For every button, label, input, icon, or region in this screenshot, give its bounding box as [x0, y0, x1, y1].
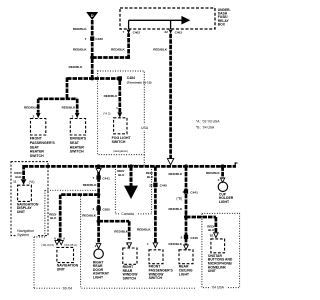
svg-text:WINDOW: WINDOW [123, 273, 139, 277]
fog light switch box [114, 118, 127, 134]
label RED/BLK below C336 [73, 48, 88, 52]
note ('03-'05 A) [64, 243, 77, 247]
svg-text:'04 USA: '04 USA [212, 285, 225, 289]
label C484 terminals 11-13 [127, 76, 152, 84]
svg-text:BLK: BLK [147, 175, 154, 179]
label front passenger's window switch [149, 265, 174, 281]
svg-text:PASSENGER'S: PASSENGER'S [30, 141, 56, 145]
svg-text:(*A 2): (*A 2) [103, 112, 110, 116]
connector C346 pin 6 [181, 235, 199, 240]
svg-text:UNIT: UNIT [17, 210, 26, 214]
wire main vertical from D (RED/BLK) [87, 20, 98, 79]
node bus j4 [221, 164, 225, 168]
label rear ceiling light [179, 265, 193, 277]
svg-text:1: 1 [116, 106, 118, 110]
label fog light switch [112, 136, 132, 144]
svg-text:B1: B1 [210, 233, 214, 237]
label onstar unit [208, 254, 233, 273]
label RED/BLK x155 [146, 171, 154, 179]
wire branch to right rear window switch [99, 221, 130, 240]
svg-text:('03-'05 A): ('03-'05 A) [64, 243, 77, 247]
terminal 2 front passenger seat heater [33, 113, 41, 118]
terminal 6 nav unit [54, 237, 59, 245]
svg-text:33: 33 [149, 183, 153, 187]
svg-text:RED/BLK: RED/BLK [24, 106, 39, 110]
svg-text:D: D [91, 13, 94, 18]
svg-text:C346: C346 [190, 236, 198, 240]
svg-text:RED/BLK: RED/BLK [104, 94, 119, 98]
wire branch to fuse box pin 7 [92, 33, 128, 59]
label navigation display unit [17, 202, 39, 213]
svg-text:CUP: CUP [219, 192, 227, 196]
svg-text:BOX: BOX [218, 23, 226, 27]
dotted border segment a [43, 190, 47, 235]
svg-text:BUTTONS AND: BUTTONS AND [208, 258, 233, 262]
svg-text:USA: USA [141, 126, 149, 130]
svg-text:ASHTRAY: ASHTRAY [93, 272, 110, 276]
svg-text:DOOR: DOOR [93, 268, 104, 272]
node branch at y78.5 [90, 77, 94, 81]
svg-text:(navigation): (navigation) [113, 149, 128, 153]
wire bus left arm down [18, 165, 29, 179]
svg-text:4: 4 [92, 207, 94, 211]
label RED/BLK below C585 [82, 213, 97, 217]
svg-text:7: 7 [123, 30, 125, 34]
svg-text:RED/BLK: RED/BLK [168, 172, 183, 176]
svg-text:RED/BLK: RED/BLK [169, 242, 183, 246]
note (*B) [176, 197, 182, 201]
under-dash fuse/relay box [120, 8, 215, 29]
svg-text:(*B): (*B) [176, 197, 182, 201]
svg-text:RED/BLK: RED/BLK [62, 106, 77, 110]
label RED/BLK above fp window switch [137, 228, 152, 232]
terminal 1 right rear window switch [126, 241, 132, 247]
svg-text:SWITCH: SWITCH [149, 276, 163, 280]
svg-text:2: 2 [33, 114, 35, 118]
label RED/BLK cup holder [206, 171, 221, 175]
svg-text:7: 7 [92, 176, 94, 180]
wire horizontal branch y78.5 [67, 73, 120, 84]
svg-text:22: 22 [164, 30, 168, 34]
svg-text:REAR: REAR [93, 264, 103, 268]
navigation display unit box [18, 185, 32, 201]
svg-text:LIGHT: LIGHT [93, 275, 104, 279]
svg-text:2: 2 [72, 114, 74, 118]
rear ceiling light box [179, 250, 193, 264]
svg-text:C445: C445 [160, 184, 168, 188]
svg-text:C336: C336 [95, 37, 103, 41]
terminal 1 front passenger window switch [147, 242, 158, 248]
wire to front passenger's seat heater switch [33, 99, 44, 113]
svg-text:BLK: BLK [118, 173, 125, 177]
wire branch to onstar unit [186, 217, 216, 232]
dotted border bottom '00-'04 [34, 285, 195, 291]
svg-text:C441: C441 [102, 176, 110, 180]
svg-text:FRONT: FRONT [30, 137, 43, 141]
terminal female arrow below bus j1 [96, 169, 101, 174]
terminal stub split nav unit [57, 236, 60, 242]
svg-text:RED/BLK: RED/BLK [73, 48, 88, 52]
navigation system dashed region [11, 162, 48, 237]
svg-text:C403: C403 [133, 30, 141, 34]
wire big arrow shaft [125, 166, 137, 186]
node bus j3 [184, 164, 188, 168]
svg-text:11: 11 [13, 180, 17, 184]
label RED/BLK nav unit wire [49, 213, 57, 221]
terminal female arrow onto bus [167, 159, 173, 165]
wire x98.6 bus to ashtray light [93, 166, 104, 243]
terminal B1 onstar [210, 233, 219, 238]
label RED/BLK x186 mid [168, 207, 183, 211]
svg-text:RED/BLK: RED/BLK [153, 48, 168, 52]
arrow right inside fuse box [181, 16, 190, 25]
connector C445 pin 33 [149, 183, 167, 188]
svg-text:MICROPHONE/: MICROPHONE/ [208, 262, 232, 266]
terminal 2 driver's seat heater [72, 113, 80, 118]
svg-text:HEATER: HEATER [70, 145, 85, 149]
svg-text:(Terminals 11-13): (Terminals 11-13) [127, 80, 152, 84]
svg-text:SWITCH: SWITCH [30, 154, 44, 158]
label RED/BLK x186 upper [168, 172, 183, 176]
svg-text:HOMELINK: HOMELINK [208, 265, 227, 269]
wire x186 bus to rear ceiling light [181, 166, 192, 244]
svg-text:FRONT: FRONT [149, 265, 162, 269]
wire bus to cup holder light [217, 166, 228, 178]
dotted region USA (fog light) [98, 71, 150, 155]
label right rear door ashtray light [93, 260, 110, 279]
svg-text:'00-'04: '00-'04 [62, 286, 72, 290]
label RED/BLK driver seat [62, 106, 77, 110]
wire to driver's seat heater switch [72, 99, 83, 113]
svg-text:LIGHT: LIGHT [179, 272, 190, 276]
svg-text:DRIVER'S: DRIVER'S [70, 137, 87, 141]
terminal A nav unit [59, 237, 66, 245]
svg-text:REAR: REAR [179, 265, 189, 269]
connector C403 pin 7 [123, 30, 141, 35]
label navigation unit [57, 264, 79, 272]
note (*A) nav display [29, 180, 35, 184]
svg-text:7: 7 [85, 37, 87, 41]
driver's seat heater switch box [70, 119, 85, 136]
label cup holder light [219, 192, 234, 204]
label RED/BLK rr window [114, 229, 129, 233]
svg-text:FOG LIGHT: FOG LIGHT [112, 136, 132, 140]
dotted border segment c [79, 196, 83, 288]
navigation unit box [57, 247, 74, 262]
svg-text:FUSE/: FUSE/ [218, 15, 228, 19]
svg-text:REAR: REAR [123, 269, 133, 273]
svg-text:('00-'03 6): ('00-'03 6) [41, 243, 54, 247]
node junction window-switch branch [97, 219, 101, 223]
svg-text:System: System [17, 233, 29, 237]
svg-text:RED/BLK: RED/BLK [111, 48, 126, 52]
svg-text:BLK: BLK [50, 216, 57, 220]
svg-text:RED/BLK: RED/BLK [83, 183, 98, 187]
label UNDER-DASH FUSE/RELAY BOX [218, 8, 231, 27]
node junction nav-unit branch [97, 193, 100, 196]
svg-text:SWITCH: SWITCH [112, 140, 126, 144]
svg-text:ONSTAR: ONSTAR [208, 254, 223, 258]
svg-text:C441: C441 [190, 190, 198, 194]
svg-text:(*A): (*A) [29, 180, 35, 184]
svg-text:C585: C585 [102, 207, 110, 211]
wire main bus horizontal [24, 162, 238, 166]
connector C484 junction [118, 76, 122, 80]
dotted border segment d [32, 237, 36, 288]
svg-text:WINDOW: WINDOW [149, 272, 165, 276]
connector C403 pin 22 [164, 30, 182, 35]
svg-text:DASH: DASH [218, 12, 228, 16]
front passenger's seat heater switch box [31, 119, 46, 136]
wire inside fuse box [129, 20, 182, 29]
node junction at y57.5 [90, 56, 94, 60]
svg-text:RED/BLK: RED/BLK [69, 65, 84, 69]
wire riser to seat heater bus [62, 78, 73, 99]
dotted border segment b [45, 188, 97, 192]
svg-text:RIGHT: RIGHT [123, 265, 134, 269]
svg-text:NAVIGATION: NAVIGATION [57, 264, 79, 268]
label RED/BLK fog [104, 94, 119, 98]
svg-text:CEILING: CEILING [179, 268, 193, 272]
svg-text:HOLDER: HOLDER [219, 196, 234, 200]
svg-text:RELAY: RELAY [218, 19, 230, 23]
label RED/BLK below C441 [83, 183, 98, 187]
label driver's seat heater switch [70, 137, 87, 154]
big continuation arrow (canada) [124, 186, 138, 199]
svg-text:RED/BLK: RED/BLK [206, 171, 221, 175]
svg-text:Navigation: Navigation [17, 229, 34, 233]
node junction onstar branch [184, 215, 188, 219]
svg-text:NAVIGATION: NAVIGATION [17, 202, 39, 206]
label front passenger's seat heater switch [30, 137, 56, 158]
label RED/BLK above rear ceiling light [169, 242, 183, 246]
label navigation note on USA box [113, 149, 128, 153]
dotted region '04 USA [202, 213, 240, 289]
svg-text:RED/BLK: RED/BLK [82, 213, 97, 217]
label RED/BLK onstar [207, 224, 215, 232]
cup holder light bulb [218, 182, 227, 191]
connector C336 pin 7 [85, 36, 103, 41]
connector C441 pin 3 [182, 189, 198, 194]
terminal arrow rear ceiling light [184, 245, 189, 250]
svg-text:HEATER: HEATER [30, 150, 45, 154]
svg-text:*B : '04 USA: *B : '04 USA [196, 126, 215, 130]
svg-text:RIGHT: RIGHT [93, 260, 104, 264]
svg-text:C403: C403 [175, 30, 183, 34]
connector C441 pin 7 [92, 175, 110, 180]
svg-text:*A : '02-'03 USA: *A : '02-'03 USA [196, 120, 220, 124]
svg-text:PASSENGER'S: PASSENGER'S [149, 268, 174, 272]
svg-text:RED/BLK: RED/BLK [114, 229, 129, 233]
label RED/BLK pin22 wire [153, 48, 168, 52]
dotted border USA-to-canada link [142, 155, 146, 166]
wire branch to navigation unit [60, 195, 98, 240]
right rear window switch box [123, 248, 137, 264]
svg-text:LIGHT: LIGHT [219, 200, 230, 204]
label RED/BLK on riser [111, 48, 126, 52]
svg-text:UNIT: UNIT [57, 268, 66, 272]
svg-text:SEAT: SEAT [30, 145, 40, 149]
svg-text:RED/BLK: RED/BLK [73, 27, 88, 31]
note ('00-'03 6) [41, 243, 54, 247]
label RED/BLK canada arrow [117, 169, 125, 177]
svg-text:Canada: Canada [121, 212, 134, 216]
canada dotted region [115, 165, 151, 216]
note *A *B model years [196, 120, 220, 130]
label RED/BLK nav display [14, 171, 22, 179]
node bus j2 [129, 164, 133, 168]
wire to fog light switch [114, 81, 125, 113]
svg-text:DISPLAY: DISPLAY [17, 206, 33, 210]
terminal 1 fog light switch [103, 106, 122, 118]
wire x155 bus to front passenger window switch [150, 166, 161, 242]
onstar buttons and microphone/homelink unit box [211, 239, 225, 253]
connector arrow D (from-page reference) [86, 12, 98, 20]
label right rear window switch [123, 265, 139, 281]
wire from pin 22 long vertical (RED/BLK) [165, 34, 176, 159]
svg-text:RED/BLK: RED/BLK [137, 228, 152, 232]
svg-text:UNDER-: UNDER- [218, 8, 231, 12]
svg-text:RED/BLK: RED/BLK [168, 207, 183, 211]
right rear door ashtray light bulb [94, 249, 103, 258]
svg-text:SWITCH: SWITCH [70, 150, 84, 154]
terminal 3 cup holder light [218, 178, 225, 182]
front passenger's window switch box [149, 250, 163, 264]
svg-text:C484: C484 [127, 76, 135, 80]
wire seat-heater horizontal [38, 93, 77, 104]
svg-text:SEAT: SEAT [70, 141, 80, 145]
terminal 11 nav display [13, 179, 26, 185]
connector C585 pin 4 [92, 206, 110, 211]
node bus j1 [97, 164, 101, 168]
svg-text:UNIT: UNIT [208, 269, 217, 273]
label RED/BLK left arm [69, 65, 84, 69]
svg-text:SWITCH: SWITCH [123, 277, 137, 281]
svg-text:6: 6 [181, 236, 183, 240]
svg-text:BLK: BLK [208, 228, 215, 232]
label RED/BLK fp seat [24, 106, 39, 110]
label RED/BLK upper [73, 27, 88, 31]
dotted border segment top [34, 235, 45, 239]
svg-text:BLK: BLK [15, 175, 22, 179]
terminal 2 ashtray light [95, 244, 101, 249]
